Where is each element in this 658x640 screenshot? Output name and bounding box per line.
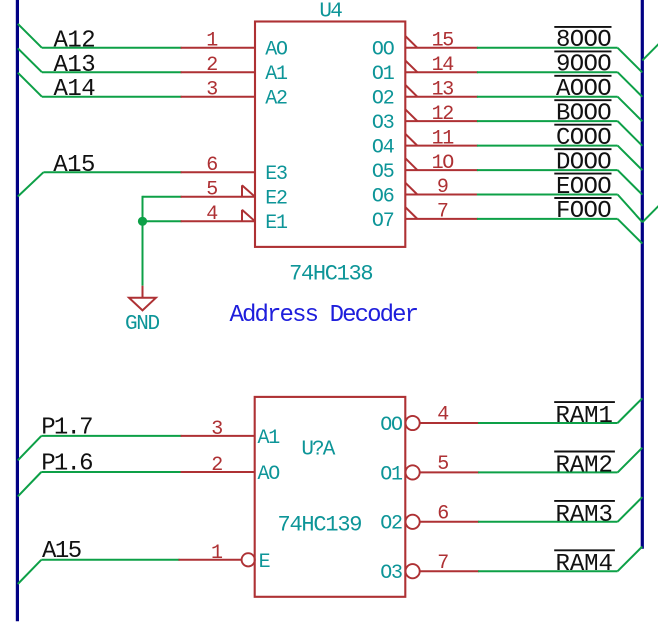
svg-text:A2: A2 [265,88,287,111]
svg-text:O7: O7 [372,210,394,233]
svg-text:A1: A1 [258,427,281,450]
wire A14 [42,96,182,98]
svg-text:4: 4 [437,404,449,427]
junction E1/GND [138,217,147,226]
label 8000 (active low) [554,27,611,54]
wire P1.7 [41,435,181,437]
svg-text:O2: O2 [380,513,402,536]
svg-text:OO: OO [380,414,402,437]
wire RAM2 [478,471,617,473]
active-low marker pin 12 [405,109,417,121]
svg-text:AO: AO [265,39,287,62]
wire A12 bus entry [18,24,42,48]
svg-text:E1: E1 [265,212,288,235]
svg-text:A14: A14 [54,76,96,103]
svg-text:7: 7 [437,552,449,575]
svg-text:14: 14 [432,54,454,77]
svg-text:15: 15 [432,30,454,53]
active-low marker pin 13 [405,85,417,97]
wire RAM1 bus entry [618,398,643,423]
svg-text:5: 5 [437,453,449,476]
pin 2 (A0) of U?A [181,471,255,473]
svg-text:1O: 1O [432,152,454,175]
svg-text:O4: O4 [372,137,394,160]
wire 8000 [477,47,618,49]
svg-text:OO: OO [372,39,394,62]
svg-text:74HC139: 74HC139 [278,512,362,537]
svg-text:6: 6 [206,154,218,177]
active-low marker pin 9 [405,183,417,195]
svg-text:8OOO: 8OOO [556,27,611,54]
active-low marker pin 14 [405,61,417,73]
svg-text:RAM3: RAM3 [556,502,613,529]
pin 7 (O7) of U4 [405,218,478,220]
pin 14 (O1) of U4 [405,71,478,73]
wire A12 [42,47,182,49]
pin 6 (E3) of U4 [181,171,255,173]
svg-text:A15: A15 [42,538,81,565]
svg-text:U?A: U?A [301,438,335,461]
svg-text:A12: A12 [54,27,95,54]
label A000 (active low) [554,76,611,103]
svg-text:A13: A13 [54,52,95,79]
svg-text:2: 2 [211,454,223,477]
label RAM2 (active low) [554,452,615,480]
label F000 (active low) [554,198,611,225]
svg-text:A1: A1 [265,63,288,86]
wire A000 bus entry [618,97,643,122]
svg-text:4: 4 [206,203,218,226]
wire D000 [477,169,618,171]
pin 5 (O1) of U?A [406,453,480,480]
pin 1 (E) of U?A [179,542,255,567]
wire A000 [477,96,618,98]
svg-text:U4: U4 [319,0,342,23]
label RAM1 (active low) [554,402,615,430]
IC U4 74HC138 body [255,22,405,247]
active-low marker pin 10 [405,158,417,170]
svg-text:7: 7 [437,201,448,224]
label RAM4 (active low) [554,550,615,578]
wire E1 net [143,220,182,222]
pin 1 (A0) of U4 [181,47,255,49]
wire 8000 bus entry [618,48,643,73]
wire A13 [42,71,182,73]
wire RAM4 [478,570,617,572]
active-low marker pin 5 [242,185,255,197]
wire E2 net [143,196,182,198]
pin 4 (O0) of U?A [406,404,480,431]
svg-text:5: 5 [206,179,218,202]
wire A13 bus entry [18,48,42,72]
wire E000 [477,194,618,196]
svg-text:RAM4: RAM4 [556,551,613,578]
svg-text:9: 9 [437,176,448,199]
svg-text:COOO: COOO [556,125,611,152]
wire E000 bus entry [618,195,643,223]
wire P1.7 bus entry [18,436,42,460]
pin 3 (A2) of U4 [181,96,255,98]
wire A15 [43,171,181,173]
wire A14 bus entry [18,73,42,97]
wire 9000 bus entry [618,72,643,97]
wire F000 bus entry [618,219,643,244]
pin 3 (A1) of U?A [181,435,255,437]
wire bus exit mid right [642,206,658,223]
wire RAM3 [478,521,617,523]
bus (right address bus) [641,0,644,549]
svg-text:O2: O2 [372,88,394,111]
svg-text:AO: AO [258,463,280,486]
svg-text:O3: O3 [372,112,394,135]
svg-text:AOOO: AOOO [556,76,611,103]
wire RAM2 bus entry [618,448,643,473]
ground GND symbol [129,286,156,311]
pin 13 (O2) of U4 [405,96,478,98]
wire C000 [477,145,618,147]
svg-text:O3: O3 [380,562,402,585]
label RAM3 (active low) [554,501,615,529]
wire A15 (to E) bus entry [18,560,42,584]
pin 6 (O2) of U?A [406,502,480,529]
svg-text:A15: A15 [53,152,94,179]
svg-text:FOOO: FOOO [556,198,611,225]
svg-text:9OOO: 9OOO [556,52,611,79]
label B000 (active low) [554,100,611,127]
wire RAM3 bus entry [618,497,643,522]
bus (left address bus) [16,0,19,621]
wire C000 bus entry [618,146,643,171]
svg-text:E: E [259,551,271,574]
pin 10 (O5) of U4 [405,169,478,171]
svg-text:GND: GND [125,313,159,336]
pin 4 (E1) of U4 [181,220,255,222]
svg-text:3: 3 [211,418,223,441]
svg-text:11: 11 [432,127,455,150]
active-low marker pin 11 [405,134,417,146]
pin 7 (O3) of U?A [406,552,480,579]
svg-text:12: 12 [432,103,454,126]
pin 11 (O4) of U4 [405,145,478,147]
svg-text:O6: O6 [372,185,394,208]
pin 2 (A1) of U4 [181,71,255,73]
svg-text:74HC138: 74HC138 [289,261,372,286]
wire D000 bus entry [618,170,643,195]
pin 12 (O3) of U4 [405,120,478,122]
svg-text:6: 6 [437,502,449,525]
wire P1.6 [41,471,181,473]
svg-text:P1.7: P1.7 [41,414,92,441]
wire 9000 [477,71,618,73]
IC U?A 74HC139 body [255,397,406,597]
pin 5 (E2) of U4 [181,196,255,198]
svg-text:1: 1 [211,542,223,565]
active-low marker pin 15 [405,36,417,48]
svg-text:Address Decoder: Address Decoder [230,302,418,329]
wire A15 bus entry [18,172,44,196]
svg-text:1: 1 [206,30,218,53]
wire bus exit top right [642,44,658,61]
svg-text:E2: E2 [265,188,287,211]
svg-text:E3: E3 [265,163,287,186]
svg-text:RAM2: RAM2 [556,452,613,479]
wire A15 (to E) [41,559,179,561]
active-low marker pin 7 [405,207,417,219]
wire RAM1 [478,422,617,424]
svg-text:2: 2 [206,54,218,77]
svg-text:O1: O1 [372,63,395,86]
wire B000 [477,120,618,122]
svg-text:BOOO: BOOO [556,100,611,127]
wire P1.6 bus entry [18,472,42,496]
wire B000 bus entry [618,121,643,146]
svg-text:DOOO: DOOO [556,149,611,176]
svg-text:O1: O1 [380,463,403,486]
wire F000 [477,218,618,220]
svg-text:O5: O5 [372,161,394,184]
label C000 (active low) [554,125,611,152]
wire RAM4 bus entry [618,547,643,572]
label 9000 (active low) [554,51,611,78]
pin 15 (O0) of U4 [405,47,478,49]
svg-text:13: 13 [432,78,454,101]
svg-text:EOOO: EOOO [556,174,611,201]
svg-text:P1.6: P1.6 [41,450,92,477]
label E000 (active low) [554,174,611,201]
label D000 (active low) [554,149,611,176]
pin 9 (O6) of U4 [405,194,478,196]
active-low marker pin 4 [242,210,255,222]
svg-text:3: 3 [206,78,218,101]
svg-text:RAM1: RAM1 [556,403,613,430]
wire GND net vertical [142,196,144,286]
